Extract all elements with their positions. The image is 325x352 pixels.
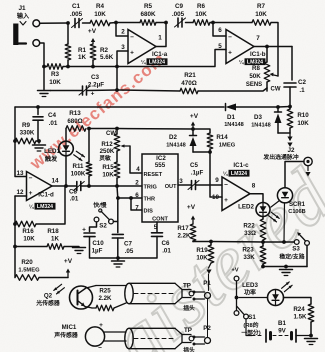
svg-text:10K: 10K (49, 79, 61, 86)
label Q2 (35, 293, 60, 308)
svg-text:1K: 1K (78, 54, 87, 61)
svg-text:Q2: Q2 (44, 293, 53, 300)
label R2 (100, 47, 114, 61)
svg-text:C4: C4 (48, 112, 57, 119)
wire S2 to C10 (90, 222, 97, 232)
svg-text:C1: C1 (72, 3, 81, 10)
label R3 (49, 71, 61, 86)
wire S3 down (306, 245, 308, 266)
svg-text:C6: C6 (162, 240, 170, 247)
label pin 7 (256, 35, 260, 42)
node R12 top (115, 127, 119, 131)
label R20 (18, 259, 40, 274)
svg-text:B1: B1 (278, 320, 286, 327)
node R1 top (66, 21, 70, 25)
wire IC1-a out (156, 23, 166, 47)
svg-text:R17: R17 (177, 225, 189, 232)
label OUT (165, 184, 177, 190)
wire pin12 (15, 195, 27, 197)
svg-text:C8: C8 (69, 189, 77, 196)
svg-text:C106B: C106B (288, 209, 305, 215)
svg-text:10K: 10K (195, 11, 207, 18)
label R18 (47, 228, 59, 243)
svg-text:.1: .1 (299, 87, 305, 94)
svg-text:+V: +V (187, 204, 196, 211)
wire rail128 to R12 (89, 128, 117, 130)
LED LED1 (59, 141, 74, 156)
wire Q2 collector (86, 286, 126, 289)
node R15 bottom (115, 184, 119, 188)
wire IC1-b out (254, 46, 292, 48)
wire input rail y66 (44, 66, 47, 68)
svg-text:D1: D1 (227, 114, 235, 121)
node R16 left (13, 222, 17, 226)
svg-text:+V: +V (64, 258, 73, 265)
SCR SCR1 (271, 188, 293, 207)
svg-text:C2: C2 (298, 79, 307, 86)
switch S1 top contact (234, 276, 239, 281)
label J2 chinese (262, 153, 298, 161)
svg-text:1.5MEG: 1.5MEG (18, 268, 40, 274)
svg-text:C5: C5 (190, 162, 198, 169)
label R15 (102, 164, 114, 179)
svg-text:C3: C3 (91, 74, 100, 81)
wire R4 to node (110, 22, 116, 25)
LED LED3 (268, 290, 284, 306)
label R5 (140, 3, 156, 18)
label pin 12 (16, 189, 24, 196)
svg-text:R20: R20 (21, 259, 33, 266)
label D2 (166, 134, 186, 149)
svg-text:TP: TP (184, 327, 192, 334)
wire jack1 to jack2 (207, 299, 209, 338)
diode D3 (275, 107, 282, 133)
label pin 8 (252, 183, 256, 190)
svg-text:10K: 10K (23, 236, 35, 243)
wire J2 to SCR (285, 162, 304, 188)
svg-text:5: 5 (218, 43, 222, 50)
watermark gray script (95, 152, 325, 352)
svg-text:680Ω: 680Ω (67, 118, 82, 125)
svg-text:发出选通脉冲: 发出选通脉冲 (262, 153, 298, 161)
svg-text:.005: .005 (172, 11, 185, 18)
wire DIS (131, 198, 142, 210)
label IC1-d (38, 192, 54, 199)
power +V at R2 (88, 28, 97, 44)
svg-text:J1: J1 (18, 5, 26, 12)
resistor R19 (208, 242, 214, 264)
label CONT (152, 217, 168, 223)
ground input (38, 91, 51, 97)
R12 wiper (121, 144, 131, 147)
capacitor C4 (33, 117, 43, 120)
capacitor C5 (188, 181, 199, 190)
svg-text:10: 10 (212, 194, 220, 201)
node C4 R9 gnd (37, 139, 41, 143)
wire J1 sleeve to ground (43, 67, 45, 90)
svg-text:RESET: RESET (144, 172, 163, 178)
label LM324 a (141, 58, 168, 66)
svg-text:C9: C9 (175, 3, 184, 10)
svg-text:100K: 100K (71, 171, 86, 178)
node R23 bottom (261, 265, 265, 269)
svg-text:.01: .01 (70, 196, 79, 203)
wire R20 to +V (39, 277, 68, 279)
jack TP2 contacts (193, 336, 211, 346)
label MIC1 (53, 324, 78, 339)
node +V D2 (191, 127, 195, 131)
node R14 bottom (208, 150, 212, 154)
capacitor C8 (73, 182, 84, 191)
node battery gnd (309, 334, 313, 338)
resistor R20 (15, 275, 39, 281)
svg-text:R7: R7 (257, 3, 266, 10)
svg-text:CONT: CONT (152, 217, 168, 223)
svg-text:−: − (130, 34, 134, 41)
wire out to R8 (266, 47, 268, 63)
wire D2 R14 bottom (193, 151, 210, 153)
svg-text:LM324: LM324 (231, 171, 247, 177)
svg-text:TRIG: TRIG (144, 185, 157, 191)
svg-text:1N4148: 1N4148 (166, 143, 186, 149)
wire C7 to ground (117, 238, 119, 260)
svg-text:9V: 9V (278, 328, 286, 335)
wire to C2 node (278, 106, 290, 109)
label pin 13 (16, 170, 24, 177)
svg-text:10K: 10K (102, 172, 114, 179)
wire R16 to out riser (36, 186, 65, 224)
node pin2 feedback (114, 21, 118, 25)
wire MIC1 wires (104, 332, 126, 341)
svg-text:THR: THR (144, 197, 156, 203)
label R1 (78, 47, 87, 61)
svg-text:10K: 10K (94, 11, 106, 18)
label R11 (71, 163, 86, 178)
svg-text:250K: 250K (100, 148, 115, 155)
svg-text:+V: +V (88, 28, 97, 35)
wire C2 to rail (289, 87, 291, 107)
label R14 (216, 134, 235, 149)
wire C4 top (37, 107, 39, 115)
ground S3 (280, 270, 293, 276)
svg-text:R24: R24 (293, 306, 305, 313)
wire R18 to gnd (64, 246, 79, 248)
wire R7 to R8 wiper (271, 23, 278, 77)
label pin 2 (121, 29, 125, 36)
label R7 (255, 3, 267, 18)
ground timing (112, 261, 125, 267)
label IC1-c (233, 162, 249, 169)
svg-text:R3: R3 (51, 71, 60, 78)
svg-text:R6: R6 (197, 3, 206, 10)
label LM324 c (223, 170, 250, 178)
wire SCR cathode (283, 203, 286, 242)
svg-text:输入: 输入 (17, 12, 30, 20)
potentiometer R12 (114, 129, 120, 152)
svg-text:+: + (99, 322, 103, 329)
svg-text:R13: R13 (69, 110, 81, 117)
svg-text:330K: 330K (20, 130, 35, 137)
label C10 (92, 240, 105, 255)
ground battery (305, 339, 318, 345)
wire bottom gnd row (263, 266, 307, 268)
wire J1 tip to C1 node (40, 22, 68, 24)
label C9 (172, 3, 185, 18)
node gnd S3 (284, 265, 288, 269)
svg-text:OUT: OUT (165, 184, 177, 190)
node C3 R21 (115, 88, 119, 92)
resistor R11 (86, 129, 92, 187)
node DIS tie (129, 196, 133, 200)
watermark www.elecfans.com (26, 49, 170, 174)
label TRIG (144, 185, 157, 191)
svg-text:IC1-b: IC1-b (250, 51, 266, 58)
svg-text:+: + (228, 50, 232, 57)
label C6 (162, 240, 172, 255)
svg-text:SENS: SENS (246, 82, 262, 88)
svg-text:8: 8 (252, 183, 256, 190)
label R13 (67, 110, 82, 125)
label R24 (293, 306, 307, 321)
svg-text:R21: R21 (184, 72, 196, 79)
svg-text:J2: J2 (287, 147, 295, 154)
svg-text:13: 13 (16, 170, 24, 177)
label pin 3 (179, 178, 183, 185)
svg-text:.1µF: .1µF (191, 170, 204, 177)
label pin 7 (135, 205, 139, 212)
svg-text:SCR1: SCR1 (289, 202, 306, 208)
svg-text:1N4148: 1N4148 (224, 122, 244, 128)
svg-text:555: 555 (155, 162, 166, 169)
wire S1 to battery (246, 319, 263, 336)
resistor R13 (66, 126, 86, 132)
label pin 3 (121, 44, 125, 51)
power +V S1 (231, 268, 238, 274)
LED1 arrows (74, 151, 85, 160)
wire R5 to node (156, 22, 166, 24)
label R23 (242, 247, 255, 262)
label R4 (94, 3, 106, 18)
wire node to R21 (117, 90, 180, 91)
wire D1 to D3 node (236, 106, 278, 108)
negative supply arrow (287, 133, 292, 147)
svg-text:.05: .05 (125, 248, 134, 255)
svg-text:6: 6 (218, 27, 222, 34)
diode D1 (226, 104, 237, 111)
wire pin3 (117, 51, 128, 67)
svg-text:S2: S2 (99, 223, 107, 230)
wire R6 to pin6 node (210, 22, 213, 24)
node J1 rail (42, 65, 46, 69)
svg-text:LM324: LM324 (37, 204, 53, 210)
J1 tip contact (33, 20, 40, 27)
svg-text:680K: 680K (140, 11, 156, 18)
svg-text:+: + (91, 91, 95, 98)
wire left riser (14, 107, 16, 141)
label R8 (246, 65, 262, 88)
svg-text:R12: R12 (101, 141, 113, 148)
wire Q2 emitter (85, 307, 96, 309)
wire pin2 (116, 23, 128, 37)
svg-text:TP: TP (183, 283, 191, 290)
jack J2 (304, 157, 312, 165)
label THR (144, 197, 156, 203)
svg-text:+: + (130, 50, 134, 57)
label LED3 (242, 282, 258, 297)
label pin 1 (158, 35, 162, 42)
svg-text:R14: R14 (216, 134, 228, 141)
resistor R10 (287, 107, 293, 134)
resistor R16 (15, 221, 36, 227)
svg-text:1MEG: 1MEG (219, 143, 236, 149)
wire R25 to plug (114, 303, 126, 308)
svg-text:+: + (29, 190, 33, 197)
label pin 2 (135, 180, 139, 187)
label C2 (298, 79, 307, 94)
wire R3 to R1 node (63, 66, 68, 68)
svg-text:R9: R9 (22, 122, 31, 129)
label S2 speed (93, 201, 106, 209)
node C2 bottom rail (288, 105, 292, 109)
label R16 (22, 228, 35, 243)
svg-text:¼: ¼ (141, 59, 146, 66)
svg-text:光传感器: 光传感器 (35, 299, 60, 307)
resistor R15 (114, 151, 120, 186)
node D3 top (276, 105, 280, 109)
label C5 (190, 162, 203, 177)
svg-text:R5: R5 (144, 3, 153, 10)
svg-text:R1: R1 (78, 47, 87, 54)
svg-text:¼: ¼ (29, 203, 34, 210)
svg-text:10K: 10K (196, 255, 208, 262)
svg-text:CW: CW (106, 131, 116, 137)
IC IC2 555 box (142, 154, 178, 222)
LED3 arrows (282, 282, 293, 292)
capacitor C9 (175, 18, 186, 27)
label jack2 chinese (183, 346, 195, 352)
op-amp IC1-a (128, 30, 156, 64)
svg-text:1.5K: 1.5K (293, 314, 307, 321)
wire C3 to node (87, 89, 117, 92)
capacitor C1 (72, 19, 83, 28)
svg-text:LED2: LED2 (238, 204, 254, 211)
node R11 bottom (87, 184, 91, 188)
svg-text:C10: C10 (92, 240, 104, 247)
wire rail128 to R14 (193, 129, 210, 133)
wire R17 to node (193, 241, 211, 243)
wire node to R22 node (211, 241, 263, 244)
resistor R18 (15, 244, 64, 250)
svg-text:.01: .01 (162, 248, 171, 255)
label pin 14 (51, 178, 59, 185)
svg-text:¼: ¼ (223, 170, 228, 177)
svg-text:LED3: LED3 (242, 282, 258, 289)
label J2 (287, 147, 295, 154)
svg-text:R15: R15 (102, 164, 114, 171)
label R10 (297, 112, 309, 127)
label S1 note (241, 321, 260, 337)
svg-text:470Ω: 470Ω (181, 80, 197, 87)
node C4 top (36, 105, 40, 109)
wire rail128 to +V (117, 128, 193, 131)
wire C6 bottom (118, 236, 157, 258)
svg-text:稳定/支路: 稳定/支路 (279, 253, 304, 261)
J1 sleeve contact (33, 40, 40, 47)
wire CONT stub (156, 222, 158, 233)
wire rail to pin3 node (93, 66, 117, 68)
capacitor C10 (82, 227, 95, 237)
svg-text:−: − (29, 175, 33, 182)
label pin 6 (218, 27, 222, 34)
svg-text:1K: 1K (51, 236, 59, 243)
svg-text:S1: S1 (248, 314, 256, 321)
svg-text:14: 14 (51, 178, 59, 185)
wire LED3 to R24 (284, 298, 312, 305)
node THR (116, 196, 120, 200)
svg-text:R18: R18 (47, 228, 59, 235)
svg-text:1µF: 1µF (92, 248, 103, 255)
svg-text:P1: P1 (203, 280, 211, 287)
wire ground to C3 (51, 90, 83, 92)
resistor R6 (193, 20, 210, 26)
wire IC1-d out row (52, 185, 66, 187)
Q2 light arrows (54, 284, 65, 294)
svg-text:R25: R25 (99, 288, 111, 295)
label P1 (203, 280, 211, 287)
svg-text:2.2µF: 2.2µF (88, 82, 104, 89)
node R22 R23 (261, 240, 265, 244)
resistor R24 (308, 304, 314, 336)
node R13 R11 (87, 127, 91, 131)
wire C1 to R4 (83, 22, 91, 24)
label LM324 d (29, 203, 56, 211)
label D3 (251, 114, 271, 129)
wire R21 to R8 (198, 88, 267, 91)
R8 wiper (270, 73, 279, 77)
label R17 (177, 225, 191, 240)
label R6 (195, 3, 207, 18)
resistor R7 (252, 20, 271, 26)
connector J1 plug (13, 24, 26, 46)
J2 sleeve arrow (305, 166, 310, 177)
wire rail to R2 node (68, 66, 93, 68)
label CW R12 (106, 131, 116, 137)
svg-text:S3: S3 (292, 246, 300, 253)
wire node to R5 (116, 22, 140, 24)
svg-text:D3: D3 (254, 114, 262, 121)
wire to R15 node (89, 185, 117, 187)
wire OUT to C5 (178, 184, 191, 186)
svg-text:插头: 插头 (183, 304, 195, 312)
svg-text:声传感器: 声传感器 (53, 331, 78, 339)
node R18 left (13, 245, 17, 249)
resistor R3 (47, 64, 63, 70)
svg-text:R19: R19 (196, 247, 208, 254)
resistor R23 (260, 242, 266, 267)
wire J1 sleeve down (40, 43, 44, 67)
svg-text:2: 2 (121, 29, 125, 36)
svg-text:IC1-d: IC1-d (38, 192, 54, 199)
svg-text:9: 9 (215, 177, 219, 184)
svg-text:2.2K: 2.2K (177, 233, 191, 240)
svg-text:.01: .01 (49, 120, 58, 127)
label pin 5 (154, 224, 158, 231)
node R9 left (13, 139, 17, 143)
svg-text:−: − (98, 345, 102, 352)
wire node to S3 (263, 241, 294, 243)
svg-text:+: + (224, 197, 228, 204)
node R2 bottom (91, 65, 95, 69)
